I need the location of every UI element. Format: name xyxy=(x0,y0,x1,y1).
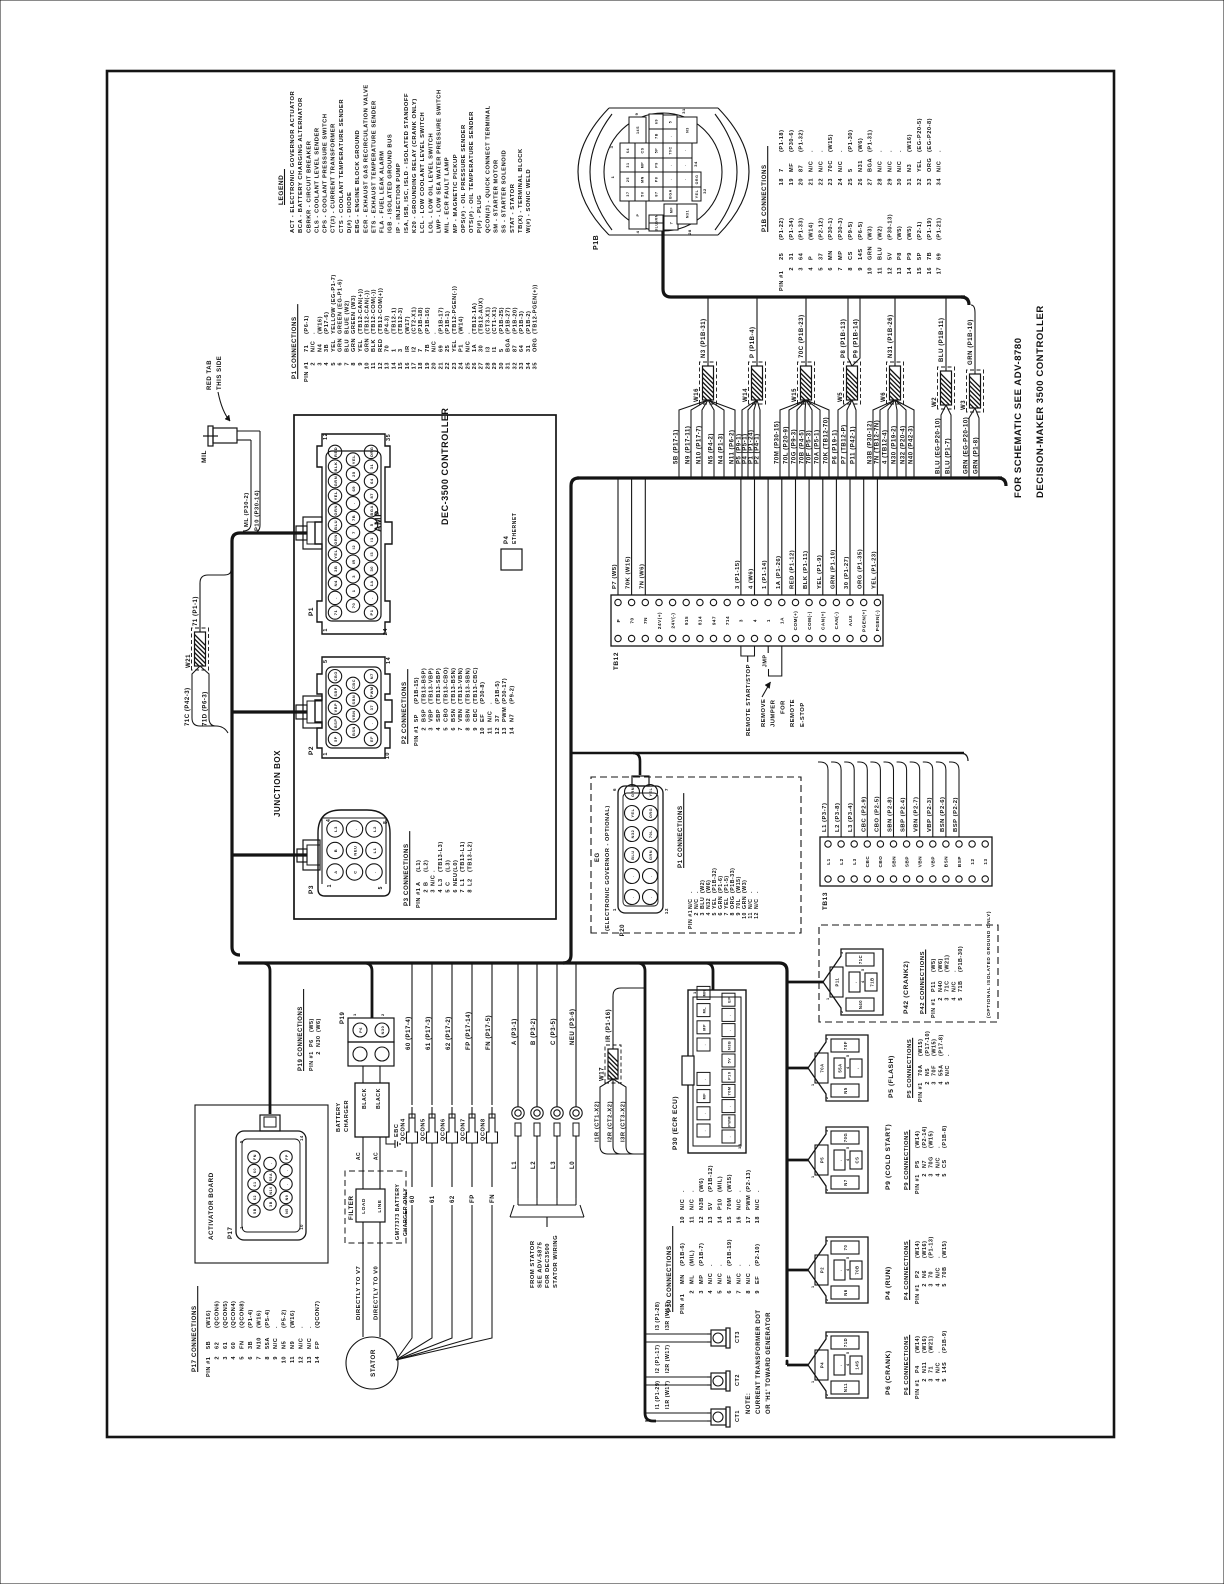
svg-text:P2 CONNECTIONS: P2 CONNECTIONS xyxy=(401,681,408,744)
svg-text:N10 (P17-7): N10 (P17-7) xyxy=(696,425,702,464)
svg-text:.: . xyxy=(372,871,377,873)
svg-text:1: 1 xyxy=(610,175,615,178)
svg-text:BLACK: BLACK xyxy=(362,1088,368,1109)
svg-text:P30 (ECR ECU): P30 (ECR ECU) xyxy=(672,1096,679,1150)
svg-text:(MIL): (MIL) xyxy=(689,1250,695,1266)
svg-text:(W16): (W16) xyxy=(290,1310,296,1328)
svg-text:N/C: N/C xyxy=(951,981,957,992)
svg-text:5: 5 xyxy=(958,997,964,1001)
svg-text:70C (P1B-23): 70C (P1B-23) xyxy=(799,314,805,358)
svg-text:(W15): (W15) xyxy=(932,1039,938,1056)
svg-text:3 (P1-15): 3 (P1-15) xyxy=(735,560,741,589)
svg-text:3: 3 xyxy=(825,1334,829,1337)
svg-text:N/C: N/C xyxy=(945,1065,951,1076)
svg-text:N10: N10 xyxy=(256,1337,262,1349)
svg-text:9: 9 xyxy=(473,727,479,731)
svg-text:70G (P9-3): 70G (P9-3) xyxy=(791,429,797,464)
svg-text:BLK (P1-11): BLK (P1-11) xyxy=(803,550,809,589)
svg-text:5: 5 xyxy=(718,1290,724,1294)
svg-text:37: 37 xyxy=(370,705,374,710)
svg-text:P20: P20 xyxy=(620,924,626,936)
svg-text:(TB13-BSP): (TB13-BSP) xyxy=(421,668,427,704)
svg-text:I2: I2 xyxy=(412,346,418,352)
svg-text:14S: 14S xyxy=(942,1362,948,1373)
svg-text:P3 CONNECTIONS: P3 CONNECTIONS xyxy=(403,843,410,906)
svg-text:N6: N6 xyxy=(843,1289,848,1296)
svg-text:3: 3 xyxy=(429,727,435,731)
svg-text:P2: P2 xyxy=(915,1270,921,1278)
svg-text:FLA - FUEL LEAK ALARM: FLA - FUEL LEAK ALARM xyxy=(380,151,386,234)
svg-text:REMOVE: REMOVE xyxy=(761,699,767,727)
svg-text:(P1B-7): (P1B-7) xyxy=(699,1243,705,1266)
svg-text:7B: 7B xyxy=(425,344,431,352)
svg-text:8: 8 xyxy=(383,821,389,824)
svg-text:.: . xyxy=(703,1112,707,1114)
svg-text:W5: W5 xyxy=(838,392,844,402)
svg-text:CHARGER ONLY: CHARGER ONLY xyxy=(403,1188,409,1236)
svg-text:(QCON7): (QCON7) xyxy=(315,1301,321,1328)
svg-text:.: . xyxy=(746,1264,752,1266)
svg-text:(TB13-L2): (TB13-L2) xyxy=(467,841,473,872)
svg-text:FP: FP xyxy=(315,1341,321,1349)
svg-text:.: . xyxy=(703,1044,707,1046)
svg-text:(W6): (W6) xyxy=(316,1018,322,1032)
svg-text:2: 2 xyxy=(316,1051,322,1055)
svg-text:(P17-10): (P17-10) xyxy=(925,1031,931,1056)
svg-text:5V: 5V xyxy=(728,1058,732,1064)
svg-text:CT(#) - CURRENT TRANSFORMER: CT(#) - CURRENT TRANSFORMER xyxy=(331,123,337,233)
svg-text:TB12: TB12 xyxy=(613,652,620,670)
svg-text:10: 10 xyxy=(299,1224,304,1230)
svg-text:P4: P4 xyxy=(915,1365,921,1373)
svg-text:(QCON5): (QCON5) xyxy=(223,1301,229,1328)
svg-text:N7: N7 xyxy=(843,1179,848,1186)
svg-text:22: 22 xyxy=(818,178,824,185)
svg-text:P7 (TB12-P): P7 (TB12-P) xyxy=(841,424,847,464)
svg-text:L3: L3 xyxy=(551,1161,557,1169)
svg-text:N/C: N/C xyxy=(809,161,815,172)
svg-text:60: 60 xyxy=(253,1168,257,1173)
svg-text:VBN: VBN xyxy=(918,856,923,867)
svg-text:7: 7 xyxy=(838,267,844,271)
svg-text:BLK: BLK xyxy=(333,462,338,472)
svg-text:YEL: YEL xyxy=(331,339,337,352)
svg-text:(P9-5): (P9-5) xyxy=(848,221,854,240)
svg-text:5: 5 xyxy=(861,968,865,971)
svg-text:25: 25 xyxy=(848,178,854,185)
svg-text:L1: L1 xyxy=(372,847,377,853)
svg-text:YEL: YEL xyxy=(333,549,338,558)
svg-text:37: 37 xyxy=(626,191,630,196)
svg-text:P9: P9 xyxy=(907,252,913,260)
svg-text:6: 6 xyxy=(338,362,344,366)
svg-text:REMOTE: REMOTE xyxy=(790,699,796,727)
svg-text:7: 7 xyxy=(779,168,785,172)
svg-text:P6 (CRANK): P6 (CRANK) xyxy=(885,1350,892,1395)
svg-text:(P1B-30): (P1B-30) xyxy=(958,946,964,972)
svg-text:P4 (RUN): P4 (RUN) xyxy=(885,1266,892,1300)
svg-text:BLU: BLU xyxy=(344,339,350,352)
svg-text:70A (P5-1): 70A (P5-1) xyxy=(814,429,820,464)
svg-text:70: 70 xyxy=(351,603,356,609)
svg-text:.: . xyxy=(838,1364,843,1366)
svg-text:.: . xyxy=(728,1105,732,1107)
svg-text:YEL: YEL xyxy=(358,339,364,352)
svg-text:LWP - LOW SEA WATER PRESSURE S: LWP - LOW SEA WATER PRESSURE SWITCH xyxy=(437,89,443,233)
svg-text:P10 (P30-14): P10 (P30-14) xyxy=(255,490,261,531)
svg-text:71B: 71B xyxy=(870,977,875,986)
svg-text:1A: 1A xyxy=(472,344,478,352)
svg-text:(TB13-VBN): (TB13-VBN) xyxy=(458,667,464,704)
svg-text:N/C: N/C xyxy=(838,161,844,172)
svg-text:L2: L2 xyxy=(467,878,473,886)
svg-text:12: 12 xyxy=(323,433,329,440)
svg-text:N3: N3 xyxy=(686,127,690,133)
svg-text:MN: MN xyxy=(680,1274,686,1284)
svg-text:W14: W14 xyxy=(743,388,749,402)
svg-text:N/C: N/C xyxy=(746,1273,752,1284)
svg-text:BSP: BSP xyxy=(421,709,427,722)
svg-text:64: 64 xyxy=(626,148,630,153)
svg-text:P8: P8 xyxy=(655,177,659,183)
svg-text:60: 60 xyxy=(410,1195,416,1203)
svg-text:(W15): (W15) xyxy=(929,1131,935,1148)
svg-text:18: 18 xyxy=(779,178,785,185)
svg-text:32: 32 xyxy=(512,362,518,369)
svg-text:9: 9 xyxy=(858,267,864,271)
svg-text:.: . xyxy=(728,1136,732,1138)
svg-text:4 (TB12-4): 4 (TB12-4) xyxy=(882,429,888,464)
svg-text:8: 8 xyxy=(351,362,357,366)
svg-text:12: 12 xyxy=(970,858,975,864)
svg-text:N/C: N/C xyxy=(431,875,437,886)
svg-text:OPS(#) - OIL PRESSURE SENDER: OPS(#) - OIL PRESSURE SENDER xyxy=(461,124,467,233)
svg-text:5: 5 xyxy=(942,1378,948,1382)
svg-text:PIN #1: PIN #1 xyxy=(309,1051,315,1071)
svg-text:CS: CS xyxy=(855,1157,860,1164)
svg-text:4: 4 xyxy=(846,1363,850,1366)
svg-text:18: 18 xyxy=(737,1143,742,1149)
svg-text:N7: N7 xyxy=(370,673,374,679)
svg-text:NEU: NEU xyxy=(453,873,459,886)
svg-text:P6: P6 xyxy=(309,1039,315,1047)
svg-text:71D: 71D xyxy=(843,1338,848,1347)
svg-text:EF: EF xyxy=(370,736,374,742)
svg-text:(TB12-AUX): (TB12-AUX) xyxy=(479,297,485,334)
svg-text:17: 17 xyxy=(937,267,943,274)
svg-text:GRN (P1B-10): GRN (P1B-10) xyxy=(968,319,974,365)
svg-text:FN: FN xyxy=(253,1154,257,1160)
svg-text:4: 4 xyxy=(231,1356,237,1360)
svg-text:.: . xyxy=(818,150,824,152)
svg-text:2: 2 xyxy=(825,1096,829,1099)
svg-text:ML (P30-2): ML (P30-2) xyxy=(244,492,250,527)
svg-text:STAT - STATOR: STAT - STATOR xyxy=(510,183,516,233)
svg-text:K20 - GROUNDING RELAY (CRANK O: K20 - GROUNDING RELAY (CRANK ONLY) xyxy=(412,98,418,233)
svg-text:C (P3-5): C (P3-5) xyxy=(551,1018,557,1045)
svg-text:23: 23 xyxy=(452,362,458,369)
svg-text:SBN: SBN xyxy=(352,695,356,705)
svg-text:GRN (P1-8): GRN (P1-8) xyxy=(973,437,979,474)
svg-text:BCA - BATTERY CHARGING ALTERNA: BCA - BATTERY CHARGING ALTERNATOR xyxy=(298,97,304,233)
svg-text:YEL: YEL xyxy=(649,787,653,796)
svg-text:(P1B-25): (P1B-25) xyxy=(499,307,505,334)
svg-text:N31: N31 xyxy=(858,160,864,172)
svg-text:7: 7 xyxy=(670,222,674,225)
svg-text:BSN: BSN xyxy=(352,726,356,736)
svg-text:71B: 71B xyxy=(958,980,964,992)
svg-text:YEL (P1-9): YEL (P1-9) xyxy=(817,555,823,589)
svg-text:14: 14 xyxy=(510,727,516,735)
svg-text:714: 714 xyxy=(725,616,730,625)
svg-text:17: 17 xyxy=(412,362,418,369)
svg-text:LINE: LINE xyxy=(377,1199,383,1212)
svg-text:VBP: VBP xyxy=(334,703,338,712)
svg-text:N/C: N/C xyxy=(887,161,893,172)
svg-text:YEL (P1-23): YEL (P1-23) xyxy=(871,551,877,589)
svg-text:4: 4 xyxy=(935,1173,941,1177)
svg-text:70: 70 xyxy=(629,617,634,623)
svg-text:(QCON6): (QCON6) xyxy=(214,1301,220,1328)
svg-text:15: 15 xyxy=(917,267,923,274)
svg-text:5: 5 xyxy=(848,168,854,172)
svg-text:.: . xyxy=(669,135,673,137)
svg-text:N31: N31 xyxy=(686,210,690,218)
svg-text:LCL - LOW COOLANT LEVEL SWITCH: LCL - LOW COOLANT LEVEL SWITCH xyxy=(420,112,426,233)
svg-text:11: 11 xyxy=(371,362,377,369)
svg-text:YEL: YEL xyxy=(917,159,923,172)
svg-text:N6: N6 xyxy=(922,1270,928,1278)
svg-text:(W14): (W14) xyxy=(809,222,815,240)
svg-text:BLU (EG-P20-10): BLU (EG-P20-10) xyxy=(935,418,941,474)
svg-text:.: . xyxy=(631,896,635,898)
svg-text:7: 7 xyxy=(256,1356,262,1360)
svg-text:3: 3 xyxy=(840,951,844,954)
svg-text:.: . xyxy=(333,597,338,599)
svg-text:(P1-31): (P1-31) xyxy=(868,129,874,152)
svg-text:70M (P30-15): 70M (P30-15) xyxy=(774,421,780,464)
svg-text:CAN(+): CAN(+) xyxy=(821,611,826,630)
svg-text:69: 69 xyxy=(438,345,444,352)
svg-text:B: B xyxy=(333,849,338,852)
svg-text:3: 3 xyxy=(609,145,614,148)
svg-text:(P2-13): (P2-13) xyxy=(746,1169,752,1192)
svg-text:.: . xyxy=(649,896,653,898)
svg-text:5V: 5V xyxy=(887,252,893,260)
svg-text:6: 6 xyxy=(612,788,617,791)
svg-text:25: 25 xyxy=(351,471,356,477)
svg-text:1A: 1A xyxy=(369,580,374,586)
svg-text:.: . xyxy=(465,332,471,334)
svg-text:.: . xyxy=(838,150,844,152)
svg-text:7B: 7B xyxy=(927,252,933,260)
svg-text:BSN: BSN xyxy=(944,856,949,867)
svg-text:IR: IR xyxy=(405,345,411,352)
svg-text:.: . xyxy=(838,1269,843,1271)
svg-text:1A: 1A xyxy=(780,617,785,624)
svg-text:N4 (P1-3): N4 (P1-3) xyxy=(718,433,724,464)
svg-text:I2R (W17): I2R (W17) xyxy=(665,1344,671,1373)
svg-text:N/C: N/C xyxy=(736,1199,742,1210)
svg-text:QCON6: QCON6 xyxy=(441,1118,447,1141)
svg-text:P1: P1 xyxy=(369,609,374,615)
svg-text:W2: W2 xyxy=(932,397,938,407)
svg-text:(W5): (W5) xyxy=(309,1018,315,1032)
svg-text:I1: I1 xyxy=(492,346,498,352)
svg-text:P11: P11 xyxy=(835,977,840,986)
svg-text:CPS - COOLANT PRESSURE SWITCH: CPS - COOLANT PRESSURE SWITCH xyxy=(323,113,329,233)
svg-text:15: 15 xyxy=(727,1216,733,1223)
svg-text:P1 CONNECTIONS: P1 CONNECTIONS xyxy=(291,316,298,379)
svg-text:BSP: BSP xyxy=(334,719,338,728)
svg-text:12: 12 xyxy=(378,362,384,369)
svg-text:21: 21 xyxy=(809,178,815,185)
svg-text:70F: 70F xyxy=(932,1065,938,1076)
svg-text:P: P xyxy=(809,256,815,260)
svg-text:(P1B-15): (P1B-15) xyxy=(414,677,420,704)
svg-text:IGB - ISOLATED GROUND BUS: IGB - ISOLATED GROUND BUS xyxy=(388,134,394,233)
svg-text:PIN #1: PIN #1 xyxy=(304,362,310,382)
svg-text:.: . xyxy=(945,1054,951,1056)
svg-text:N9: N9 xyxy=(290,1341,296,1349)
svg-text:ETHERNET: ETHERNET xyxy=(512,513,518,544)
svg-text:P2: P2 xyxy=(308,746,315,755)
svg-text:P7 (W5): P7 (W5) xyxy=(612,564,618,589)
svg-text:16: 16 xyxy=(405,362,411,369)
svg-text:6: 6 xyxy=(727,1290,733,1294)
svg-text:31: 31 xyxy=(369,464,374,470)
svg-text:5: 5 xyxy=(445,889,451,893)
svg-text:LOAD: LOAD xyxy=(361,1198,367,1214)
svg-text:FOR DEC3500: FOR DEC3500 xyxy=(545,1243,551,1288)
svg-text:YEL: YEL xyxy=(333,491,338,500)
svg-text:55A: 55A xyxy=(838,1063,843,1072)
svg-text:BSN: BSN xyxy=(451,709,457,722)
svg-text:MN: MN xyxy=(703,989,707,996)
svg-text:GRN: GRN xyxy=(333,534,338,545)
svg-text:5: 5 xyxy=(846,1256,850,1259)
svg-text:(W16): (W16) xyxy=(256,1310,262,1328)
svg-text:NEU (P3-6): NEU (P3-6) xyxy=(570,1008,576,1045)
svg-text:10: 10 xyxy=(868,267,874,274)
svg-text:4: 4 xyxy=(438,889,444,893)
svg-text:GRN: GRN xyxy=(333,505,338,516)
svg-text:(TB12-CAN(+)): (TB12-CAN(+)) xyxy=(358,288,364,334)
svg-text:3: 3 xyxy=(825,1037,829,1040)
svg-text:CBO: CBO xyxy=(443,708,449,722)
svg-text:GRN: GRN xyxy=(365,338,371,352)
svg-text:(P4-3): (P4-3) xyxy=(385,315,391,334)
svg-text:P11 (P42-1): P11 (P42-1) xyxy=(850,426,856,464)
svg-text:5: 5 xyxy=(846,1054,850,1057)
svg-text:70B: 70B xyxy=(942,1266,948,1278)
svg-text:IR: IR xyxy=(351,559,356,564)
svg-text:W16: W16 xyxy=(694,388,700,402)
svg-text:MF: MF xyxy=(670,207,674,214)
svg-text:1: 1 xyxy=(327,884,333,887)
svg-text:5: 5 xyxy=(942,1283,948,1287)
svg-text:31: 31 xyxy=(907,178,913,185)
svg-text:87: 87 xyxy=(799,165,805,172)
svg-text:P1B CONNECTIONS: P1B CONNECTIONS xyxy=(761,164,768,232)
svg-text:N5 (P4-2): N5 (P4-2) xyxy=(708,433,714,464)
svg-text:12: 12 xyxy=(754,912,760,919)
svg-text:(W14): (W14) xyxy=(459,316,465,334)
svg-text:.: . xyxy=(951,970,957,972)
svg-text:(P1B-3): (P1B-3) xyxy=(519,311,525,334)
svg-text:N/C: N/C xyxy=(935,1362,941,1373)
svg-text:SS - STARTER SOLENOID: SS - STARTER SOLENOID xyxy=(502,150,508,233)
svg-text:3: 3 xyxy=(799,267,805,271)
svg-text:28: 28 xyxy=(878,178,884,185)
svg-text:(P1B-5): (P1B-5) xyxy=(495,681,501,704)
svg-text:7B: 7B xyxy=(351,515,356,521)
svg-text:13: 13 xyxy=(307,1356,313,1363)
svg-text:(P1B-6): (P1B-6) xyxy=(680,1243,686,1266)
svg-text:.: . xyxy=(736,1264,742,1266)
svg-text:(L1): (L1) xyxy=(416,860,422,872)
svg-text:N9: N9 xyxy=(285,1195,289,1201)
svg-text:(W6): (W6) xyxy=(938,958,944,972)
svg-text:20: 20 xyxy=(432,362,438,369)
svg-text:8: 8 xyxy=(746,1290,752,1294)
svg-text:REMOTE START/STOP: REMOTE START/STOP xyxy=(746,664,752,736)
svg-text:(P2-1): (P2-1) xyxy=(917,221,923,240)
svg-text:GRN (EG-P20-10): GRN (EG-P20-10) xyxy=(963,417,969,474)
svg-text:L1: L1 xyxy=(512,1161,518,1169)
svg-text:VBN (P2-7): VBN (P2-7) xyxy=(914,797,920,832)
svg-text:14S: 14S xyxy=(858,248,864,260)
svg-text:.: . xyxy=(285,1170,289,1172)
svg-text:71: 71 xyxy=(333,610,338,616)
svg-text:.: . xyxy=(369,597,374,599)
svg-text:EF: EF xyxy=(755,1276,761,1284)
svg-text:N40: N40 xyxy=(938,980,944,992)
svg-text:MF: MF xyxy=(703,1093,707,1100)
svg-text:2: 2 xyxy=(922,1378,928,1382)
svg-text:P9: P9 xyxy=(655,162,659,168)
svg-text:1: 1 xyxy=(826,997,830,1000)
svg-text:PIN #1: PIN #1 xyxy=(915,1284,921,1304)
svg-text:I3 (P1-28): I3 (P1-28) xyxy=(655,1301,661,1330)
svg-text:30: 30 xyxy=(369,566,374,572)
svg-text:OTS(#) - OIL TEMPERATURE SENDE: OTS(#) - OIL TEMPERATURE SENDER xyxy=(469,111,475,233)
svg-text:W15: W15 xyxy=(792,388,798,402)
svg-text:CS: CS xyxy=(942,1159,948,1168)
svg-text:(W15): (W15) xyxy=(828,134,834,152)
svg-text:GRN: GRN xyxy=(655,214,659,224)
svg-text:10: 10 xyxy=(385,752,391,759)
svg-text:ISA, ISB, ISC, ISLD - ISOLATED: ISA, ISB, ISC, ISLD - ISOLATED STANDOFF xyxy=(404,93,410,233)
svg-text:THIS SIDE: THIS SIDE xyxy=(217,356,223,390)
svg-text:P11: P11 xyxy=(931,981,937,992)
svg-text:JUNCTION BOX: JUNCTION BOX xyxy=(273,750,282,817)
svg-text:4: 4 xyxy=(846,1066,850,1069)
svg-text:2: 2 xyxy=(311,362,317,366)
svg-text:(P1-32): (P1-32) xyxy=(799,129,805,152)
svg-text:947: 947 xyxy=(711,616,716,625)
svg-text:10: 10 xyxy=(365,362,371,369)
svg-text:3: 3 xyxy=(739,619,744,622)
svg-text:N/C: N/C xyxy=(935,1267,941,1278)
svg-text:(P1-34): (P1-34) xyxy=(789,217,795,240)
svg-text:27: 27 xyxy=(868,178,874,185)
svg-text:19: 19 xyxy=(425,362,431,369)
svg-text:(W15): (W15) xyxy=(918,1039,924,1056)
svg-text:.: . xyxy=(718,1264,724,1266)
svg-text:I3: I3 xyxy=(485,346,491,352)
svg-text:5: 5 xyxy=(239,1140,244,1143)
